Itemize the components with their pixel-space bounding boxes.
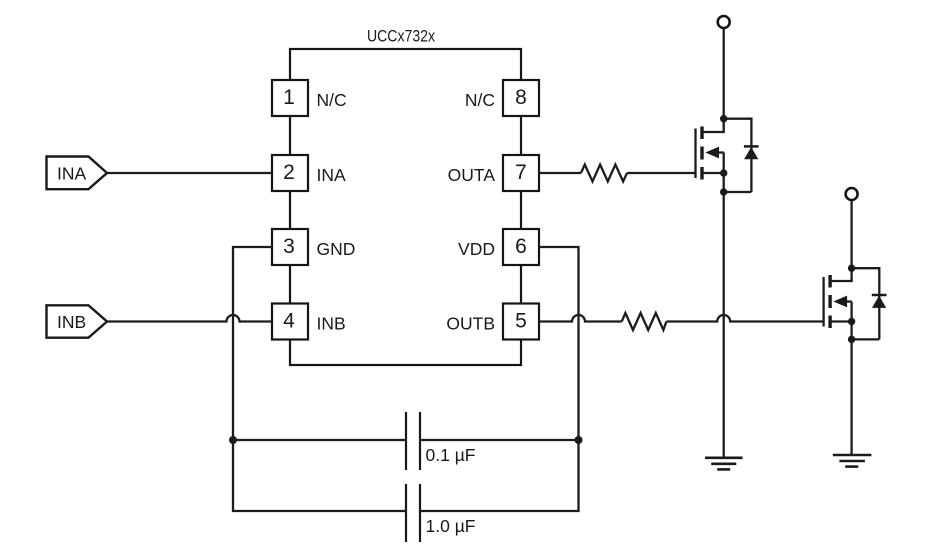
ground symbol 2	[833, 455, 872, 467]
transistor Q1 source contact	[702, 172, 724, 174]
wire resistor R2 to Q2 gate with hop	[666, 315, 823, 322]
wire INA to pin 2	[107, 172, 272, 174]
svg-text:8: 8	[515, 86, 527, 109]
node dot Q1 source / diode junction	[720, 188, 727, 195]
svg-text:2: 2	[283, 161, 295, 184]
body diode D2 cathode bar	[872, 294, 887, 297]
pin 5 box	[503, 304, 539, 340]
input tag INB	[47, 305, 108, 337]
wire body diode D1 bottom branch	[724, 191, 752, 193]
transistor Q2 source wire	[850, 302, 852, 340]
svg-text:0.1 µF: 0.1 µF	[426, 445, 476, 465]
svg-text:5: 5	[515, 310, 527, 333]
transistor Q2 gate bar	[822, 277, 824, 327]
wire GND rail pin3 left and down to capacitors	[233, 247, 406, 511]
svg-text:INA: INA	[317, 165, 347, 185]
wire Q1 drain	[702, 29, 724, 132]
pin 3 box	[272, 229, 308, 265]
resistor R2	[622, 313, 667, 330]
transistor Q1 body arrow	[705, 147, 723, 159]
wire Q1 source to ground	[723, 192, 725, 458]
svg-text:INA: INA	[57, 164, 87, 184]
svg-text:1.0 µF: 1.0 µF	[426, 516, 476, 536]
supply terminal circle Q2 drain	[846, 188, 858, 200]
pin 6 box	[503, 229, 539, 265]
IC U1 outline	[290, 49, 521, 365]
wire INB to pin 4 with hop over GND rail	[107, 315, 272, 322]
svg-text:OUTA: OUTA	[448, 165, 496, 185]
body diode D1 triangle	[744, 147, 758, 159]
wire body diode D2 bottom branch	[852, 338, 880, 340]
capacitor C2 plates	[406, 484, 420, 542]
capacitor C1 plates	[406, 412, 420, 470]
node dot GND rail / C1 junction	[229, 436, 237, 444]
transistor Q1 source wire	[723, 153, 725, 193]
node dot Q1 source	[720, 169, 727, 176]
wire Q2 drain	[830, 201, 852, 282]
node dot Q2 drain / body diode	[848, 265, 855, 272]
wire body diode D1 top branch	[724, 119, 752, 192]
svg-text:INB: INB	[57, 312, 86, 332]
svg-text:INB: INB	[317, 314, 346, 334]
ground symbol 1	[705, 458, 743, 470]
svg-text:GND: GND	[317, 239, 356, 259]
transistor Q2 source contact	[830, 320, 852, 322]
node dot Q2 source	[848, 318, 855, 325]
node dot Q2 source / diode junction	[848, 336, 855, 343]
svg-text:UCCx732x: UCCx732x	[367, 27, 435, 46]
svg-text:N/C: N/C	[465, 90, 495, 110]
svg-text:3: 3	[283, 235, 295, 258]
svg-text:VDD: VDD	[458, 239, 495, 259]
wire OUTB pin5 with hops over VDD rail and Q1 source line, resistor R2 in middle	[539, 315, 622, 322]
svg-text:OUTB: OUTB	[446, 314, 495, 334]
pin 2 box	[272, 155, 308, 191]
transistor Q1 gate bar	[694, 129, 696, 179]
body diode D1 cathode bar	[744, 145, 759, 148]
svg-text:7: 7	[515, 161, 527, 184]
wire OUTA pin7 to resistor	[539, 172, 581, 174]
body diode D2 triangle	[872, 296, 886, 308]
svg-text:N/C: N/C	[317, 90, 347, 110]
supply terminal circle Q1 drain	[718, 16, 730, 28]
node dot VDD rail / C1 junction	[575, 436, 583, 444]
svg-text:4: 4	[283, 310, 295, 333]
svg-text:1: 1	[283, 86, 295, 109]
transistor Q1 channel segments	[700, 127, 703, 180]
wire Q2 source to ground	[850, 339, 852, 455]
input tag INA	[47, 157, 108, 190]
resistor R1	[581, 165, 627, 182]
wire body diode D2 top branch	[852, 268, 880, 339]
transistor Q2 body arrow	[833, 296, 851, 308]
pin 7 box	[503, 155, 539, 191]
transistor Q2 channel segments	[828, 275, 831, 328]
wire resistor to Q1 gate	[627, 172, 696, 174]
pin 4 box	[272, 304, 308, 340]
capacitor C1 0.1uF top wire right	[420, 439, 579, 441]
capacitor C1 0.1uF top wire left	[233, 439, 406, 441]
pin 8 box	[503, 80, 539, 116]
wire VDD rail pin6 right and down to capacitors	[420, 247, 579, 511]
node dot Q1 drain / body diode	[720, 115, 727, 122]
pin 1 box	[272, 80, 308, 116]
svg-text:6: 6	[515, 235, 527, 258]
